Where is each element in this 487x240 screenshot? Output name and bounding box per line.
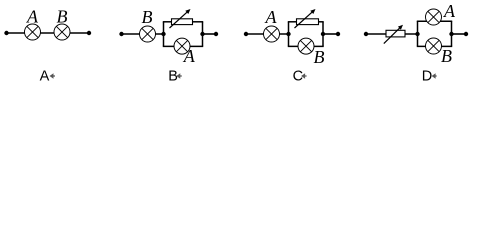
svg-text:B: B <box>441 46 452 66</box>
svg-text:B: B <box>314 47 325 67</box>
svg-text:C: C <box>293 69 303 85</box>
svg-text:A: A <box>183 46 196 66</box>
svg-text:D: D <box>422 69 432 85</box>
svg-text:B: B <box>168 69 178 85</box>
svg-text:B: B <box>57 7 68 27</box>
svg-text:A: A <box>265 7 278 27</box>
svg-text:A: A <box>40 69 50 85</box>
svg-text:B: B <box>142 7 153 27</box>
svg-text:A: A <box>26 7 39 27</box>
svg-text:A: A <box>443 1 456 21</box>
